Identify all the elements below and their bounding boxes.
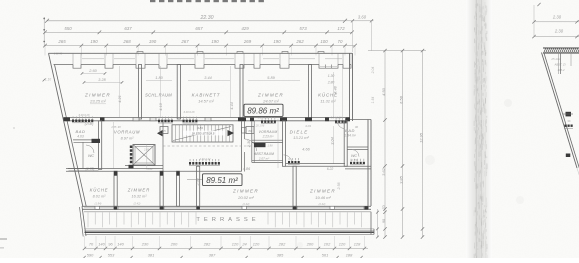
svg-text:VORRAUM: VORRAUM <box>114 130 140 135</box>
svg-text:4.03: 4.03 <box>77 135 84 139</box>
svg-text:267: 267 <box>180 39 189 44</box>
area label 89.51 m2 <box>187 179 203 181</box>
right sheet vertical line <box>560 53 562 74</box>
svg-text:4.50: 4.50 <box>381 87 386 96</box>
svg-text:ZIMMER: ZIMMER <box>309 189 336 194</box>
svg-text:265: 265 <box>57 39 66 44</box>
DIELE walls <box>286 162 346 164</box>
svg-text:140: 140 <box>98 242 105 247</box>
svg-text:2.30: 2.30 <box>554 29 564 34</box>
radiator KUECHE <box>335 117 347 123</box>
svg-text:2.08: 2.08 <box>143 148 150 152</box>
svg-text:BAD: BAD <box>345 128 355 133</box>
svg-text:(2.42): (2.42) <box>318 202 325 206</box>
radiator ZIMMER 2 <box>261 117 276 123</box>
svg-text:1.80: 1.80 <box>155 76 163 80</box>
svg-text:4.86: 4.86 <box>243 167 251 171</box>
svg-text:ZIMMER: ZIMMER <box>232 189 259 194</box>
terrace top edge <box>84 211 371 213</box>
svg-text:12.95: 12.95 <box>419 132 424 143</box>
svg-text:100: 100 <box>320 39 328 44</box>
svg-text:6.22: 6.22 <box>327 167 334 171</box>
door 80 to stair <box>241 121 243 172</box>
svg-text:188: 188 <box>346 252 353 257</box>
svg-text:DIELE: DIELE <box>290 129 309 134</box>
wall ZIMMER/KUECHE <box>309 65 312 120</box>
svg-text:1.94 m²: 1.94 m² <box>344 134 356 138</box>
svg-text:172: 172 <box>337 26 345 31</box>
svg-text:3.28: 3.28 <box>98 78 106 82</box>
svg-text:385: 385 <box>277 252 284 257</box>
svg-text:23.25 m²: 23.25 m² <box>89 99 106 104</box>
svg-text:282: 282 <box>278 242 286 247</box>
svg-text:80: 80 <box>248 129 252 133</box>
svg-text:89.86 m²: 89.86 m² <box>247 107 279 116</box>
radiator WC right <box>350 159 365 165</box>
svg-text:5.89: 5.89 <box>267 76 275 80</box>
svg-text:561: 561 <box>322 252 329 257</box>
svg-text:4.66: 4.66 <box>302 148 310 152</box>
svg-text:6.03 6.28: 6.03 6.28 <box>79 113 90 117</box>
svg-text:268: 268 <box>122 39 131 44</box>
svg-text:SCHL.RAUM: SCHL.RAUM <box>145 93 172 98</box>
right sheet black fixture <box>566 112 572 117</box>
wall SCHL.RAUM/KABINETT <box>177 65 180 120</box>
svg-text:1.54: 1.54 <box>371 97 375 104</box>
svg-text:200: 200 <box>306 242 314 247</box>
right wall jut <box>350 119 372 121</box>
svg-text:(2.42): (2.42) <box>133 202 140 206</box>
svg-text:VORRAUM: VORRAUM <box>259 130 278 134</box>
svg-text:13.21 m²: 13.21 m² <box>293 135 309 140</box>
svg-text:637: 637 <box>124 26 132 31</box>
svg-text:19.46 m²: 19.46 m² <box>315 195 331 200</box>
outer wall bottom (to terrace) <box>82 205 371 207</box>
svg-text:190: 190 <box>273 39 281 44</box>
svg-text:90: 90 <box>355 125 359 129</box>
svg-text:8.01 m²: 8.01 m² <box>93 195 107 199</box>
svg-text:387: 387 <box>209 252 216 257</box>
svg-text:16.32 m²: 16.32 m² <box>132 195 148 199</box>
terrace right edge <box>370 212 372 235</box>
svg-text:1.20 1.96: 1.20 1.96 <box>254 125 265 128</box>
svg-text:2.40 2.42: 2.40 2.42 <box>199 157 211 161</box>
svg-text:BAD: BAD <box>75 129 85 134</box>
svg-text:90: 90 <box>382 219 386 223</box>
black shaft right apartment <box>254 143 266 147</box>
svg-text:(2.42): (2.42) <box>242 202 249 206</box>
svg-text:4.10: 4.10 <box>159 102 163 110</box>
svg-text:24: 24 <box>241 242 247 247</box>
svg-text:553: 553 <box>108 252 115 257</box>
svg-text:573: 573 <box>299 26 307 31</box>
svg-text:3.60: 3.60 <box>358 14 367 19</box>
svg-text:282: 282 <box>203 242 211 247</box>
svg-text:2.56: 2.56 <box>337 183 341 191</box>
title DACHGESCHOSS (cut off at top) <box>150 0 155 2</box>
svg-text:2.90: 2.90 <box>196 179 200 187</box>
svg-text:3.62: 3.62 <box>381 167 386 176</box>
svg-text:120: 120 <box>339 242 346 247</box>
svg-text:3.85: 3.85 <box>399 175 404 184</box>
svg-text:2.60: 2.60 <box>88 69 97 73</box>
svg-text:KABINETT: KABINETT <box>192 93 221 98</box>
svg-text:2.80: 2.80 <box>327 81 335 85</box>
radiator DIELE <box>288 158 300 164</box>
svg-text:3.04: 3.04 <box>331 137 335 144</box>
svg-text:4.21: 4.21 <box>118 95 122 102</box>
svg-text:ABST. ZI: ABST. ZI <box>553 63 565 67</box>
svg-text:6.03 6.28: 6.03 6.28 <box>184 110 195 114</box>
svg-text:200: 200 <box>170 242 178 247</box>
svg-text:8.97 m²: 8.97 m² <box>121 137 135 141</box>
corridor wall (middle) <box>64 117 351 119</box>
wall ZIMMER/ZIMMER bottom right <box>293 166 296 206</box>
corridor lower wall left apartment <box>66 168 163 170</box>
svg-text:2.04: 2.04 <box>371 67 375 75</box>
svg-text:TERRASSE: TERRASSE <box>196 217 259 223</box>
svg-text:2.55 .98: 2.55 .98 <box>110 125 121 129</box>
svg-text:4.04: 4.04 <box>305 124 311 128</box>
svg-text:22.30: 22.30 <box>200 15 214 21</box>
svg-text:2.23 m²: 2.23 m² <box>262 135 275 139</box>
lower rooms top wall left <box>77 168 97 170</box>
wall KUECHE/ZIMMER bottom band <box>114 171 117 206</box>
svg-text:128: 128 <box>354 242 361 247</box>
right vertical dimension lines <box>368 50 426 52</box>
terrace slab edges <box>84 228 374 230</box>
svg-text:(1.94): (1.94) <box>95 202 102 206</box>
right sheet small radiator <box>565 125 567 127</box>
svg-text:25 1/2x: 25 1/2x <box>550 57 561 61</box>
svg-text:70: 70 <box>338 39 343 44</box>
svg-text:140: 140 <box>117 242 124 247</box>
svg-text:190: 190 <box>211 39 219 44</box>
radiator stair hall <box>189 159 220 165</box>
svg-text:70: 70 <box>382 206 386 210</box>
svg-text:6.14 6.28: 6.14 6.28 <box>331 116 342 120</box>
wall hall/ZIMMER 20.02 <box>197 166 200 206</box>
svg-text:590: 590 <box>87 252 94 257</box>
outer wall left (slanted) <box>49 53 83 206</box>
svg-text:20.02 m²: 20.02 m² <box>237 195 254 200</box>
svg-text:120: 120 <box>232 242 239 247</box>
svg-text:429: 429 <box>241 26 249 31</box>
svg-text:2.07 m²: 2.07 m² <box>258 156 270 160</box>
svg-text:ZIMMER: ZIMMER <box>127 188 151 193</box>
svg-text:190: 190 <box>149 39 157 44</box>
svg-text:2.30: 2.30 <box>247 139 251 148</box>
svg-text:(2.08): (2.08) <box>85 122 94 126</box>
svg-text:381: 381 <box>148 252 155 257</box>
WC left <box>68 168 99 170</box>
svg-text:11.31 m²: 11.31 m² <box>320 99 336 104</box>
left dimension connector <box>43 17 45 46</box>
svg-text:262: 262 <box>295 39 304 44</box>
svg-text:190: 190 <box>90 39 98 44</box>
svg-text:WC: WC <box>88 154 94 158</box>
svg-text:ZIMMER: ZIMMER <box>84 93 111 98</box>
svg-text:55: 55 <box>162 129 166 133</box>
wall KABINETT/ZIMMER <box>240 65 243 120</box>
stair hall walls <box>162 121 164 172</box>
VORRAUM right / ABST.RAUM walls <box>251 121 253 163</box>
svg-text:4.84: 4.84 <box>197 126 203 130</box>
svg-text:4.44: 4.44 <box>230 102 234 109</box>
scan noise <box>13 127 15 129</box>
svg-text:269: 269 <box>243 39 252 44</box>
svg-text:18 STG 17.5/28.5: 18 STG 17.5/28.5 <box>192 131 215 135</box>
radiator SCHL.RAUM <box>158 117 173 123</box>
terrace railing posts <box>87 212 89 227</box>
svg-text:4.48: 4.48 <box>334 85 338 93</box>
svg-text:550: 550 <box>64 26 72 31</box>
shaft with X (stairwell light shaft) <box>133 145 155 166</box>
svg-text:3.44: 3.44 <box>204 76 211 80</box>
svg-text:1.10: 1.10 <box>45 78 51 82</box>
svg-text:24.07 m²: 24.07 m² <box>262 99 279 104</box>
wall ZIMMER/SCHL.RAUM <box>139 65 142 120</box>
area label 89.86 m2 <box>244 104 283 116</box>
svg-text:14.57 m²: 14.57 m² <box>198 99 214 104</box>
outer wall top <box>49 52 353 54</box>
svg-text:657: 657 <box>195 26 203 31</box>
wall hall left <box>177 171 180 206</box>
svg-text:2.30: 2.30 <box>552 15 562 20</box>
staircase <box>172 125 233 142</box>
svg-text:230: 230 <box>141 242 149 247</box>
radiator ZIMMER 1 <box>72 116 93 122</box>
BAD left walls <box>99 121 102 170</box>
terrace left slant edge <box>82 206 86 236</box>
svg-text:1.98: 1.98 <box>267 144 273 148</box>
svg-text:ZIMMER: ZIMMER <box>257 93 284 98</box>
wall ZIMMER/hall bottom band <box>160 171 163 206</box>
svg-text:6.58: 6.58 <box>399 95 404 104</box>
svg-text:89.51 m²: 89.51 m² <box>206 176 238 185</box>
outer wall right upper <box>349 53 351 121</box>
svg-text:KÜCHE: KÜCHE <box>90 188 109 193</box>
svg-text:102: 102 <box>324 242 331 247</box>
right sheet slanted wall <box>542 53 578 169</box>
svg-text:120: 120 <box>253 242 260 247</box>
radiator KABINETT <box>183 117 198 123</box>
right sheet top wall (hatched) <box>543 48 579 49</box>
